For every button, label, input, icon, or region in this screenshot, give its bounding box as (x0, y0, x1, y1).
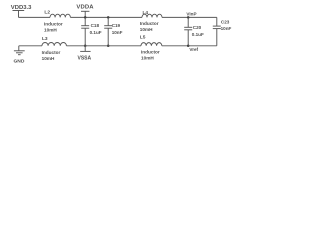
svg-text:C23: C23 (221, 19, 230, 24)
svg-text:VSSA: VSSA (78, 55, 92, 61)
capacitor C20 (184, 17, 192, 45)
wire rail1 seg A (19, 16, 51, 18)
svg-text:VinP: VinP (186, 11, 196, 16)
svg-text:VDDA: VDDA (76, 5, 94, 11)
svg-text:L2: L2 (44, 10, 50, 16)
capacitor C18 (81, 17, 89, 45)
svg-text:10mH: 10mH (42, 56, 55, 61)
svg-text:C19: C19 (112, 23, 121, 28)
svg-text:0.1uF: 0.1uF (90, 30, 102, 35)
svg-text:C18: C18 (91, 23, 100, 28)
inductor L4 (142, 14, 162, 17)
svg-text:10mH: 10mH (141, 56, 154, 61)
wire rail2 seg A (19, 45, 42, 47)
svg-text:L3: L3 (42, 36, 48, 42)
svg-text:L4: L4 (143, 10, 149, 16)
svg-text:Inductor: Inductor (44, 22, 63, 27)
junction C19 top (107, 16, 110, 19)
svg-text:10mH: 10mH (44, 28, 57, 33)
capacitor C21 (213, 17, 221, 45)
ground (14, 46, 25, 55)
svg-text:VDD3.3: VDD3.3 (11, 5, 32, 11)
svg-text:Inductor: Inductor (141, 50, 160, 55)
wire rail1 seg C (162, 16, 217, 18)
capacitor C19 (104, 17, 112, 45)
inductor L2 (50, 14, 70, 17)
wire rail2 seg D (188, 45, 217, 47)
wire rail2 seg B (66, 45, 141, 47)
svg-text:C20: C20 (193, 25, 202, 30)
inductor L3 (42, 43, 66, 46)
wire rail1 seg B (70, 16, 142, 18)
svg-text:10nF: 10nF (221, 26, 232, 31)
svg-text:Inductor: Inductor (140, 21, 159, 26)
svg-text:10nF: 10nF (112, 30, 123, 35)
junction C19 bottom (107, 45, 110, 48)
node VinP (187, 16, 190, 19)
power flag VDDA (81, 11, 89, 17)
svg-text:GND: GND (14, 59, 25, 65)
svg-text:10mH: 10mH (140, 27, 153, 32)
svg-text:0.1uF: 0.1uF (192, 32, 204, 37)
node Vref (187, 45, 190, 48)
power flag VSSA (80, 46, 90, 52)
svg-text:Inductor: Inductor (42, 50, 61, 55)
wire rail2 seg C (162, 45, 188, 47)
junction VDDA/C18 (84, 16, 87, 19)
svg-text:Vref: Vref (189, 47, 198, 52)
junction C18 bottom (84, 45, 87, 48)
svg-text:L5: L5 (140, 34, 146, 40)
inductor L5 (141, 43, 162, 46)
power flag VDD3.3 (13, 11, 25, 18)
